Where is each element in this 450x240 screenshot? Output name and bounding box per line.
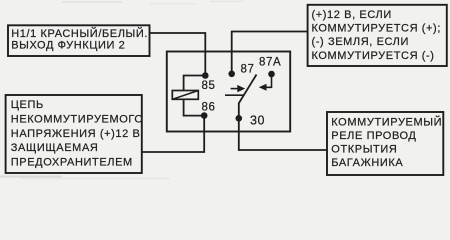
wire from pin 30 to lower right box bbox=[239, 120, 327, 150]
relay coil bbox=[172, 91, 198, 100]
pin 85 terminal dot bbox=[202, 72, 209, 79]
label box: trunk release relay wire bbox=[327, 112, 443, 175]
normally-closed arrow from 87A to blade bbox=[259, 75, 272, 91]
svg-text:30: 30 bbox=[250, 114, 265, 128]
pin 86 terminal dot bbox=[201, 112, 208, 119]
pin 87 terminal dot bbox=[228, 71, 235, 78]
svg-text:87A: 87A bbox=[259, 57, 281, 69]
svg-text:ВЫХОД ФУНКЦИИ 2: ВЫХОД ФУНКЦИИ 2 bbox=[11, 40, 125, 52]
svg-text:Н1/1 КРАСНЫЙ/БЕЛЫЙ.: Н1/1 КРАСНЫЙ/БЕЛЫЙ. bbox=[11, 27, 148, 40]
svg-text:БАГАЖНИКА: БАГАЖНИКА bbox=[331, 157, 403, 169]
pin 87A terminal dot bbox=[268, 71, 275, 78]
actuation arrow pointing right bbox=[231, 85, 246, 92]
actuator link line to blade bbox=[225, 94, 244, 96]
svg-text:86: 86 bbox=[202, 102, 216, 114]
label box: switched polarity note bbox=[308, 5, 447, 66]
svg-text:ОТКРЫТИЯ: ОТКРЫТИЯ bbox=[331, 144, 397, 156]
svg-text:87: 87 bbox=[241, 64, 255, 76]
wire from lower left box to pin 86 bbox=[142, 117, 204, 152]
scan speckles top bbox=[62, 1, 122, 3]
wire pin 85 to coil top bbox=[184, 76, 206, 92]
svg-text:85: 85 bbox=[202, 80, 216, 92]
pin 30 terminal dot bbox=[236, 115, 243, 122]
svg-text:ПРЕДОХРАНИТЕЛЕМ: ПРЕДОХРАНИТЕЛЕМ bbox=[11, 157, 133, 169]
svg-text:ЦЕПЬ: ЦЕПЬ bbox=[11, 99, 44, 111]
wire from pin 87 to upper right box bbox=[232, 32, 308, 73]
wire from H1/1 box to pin 85 bbox=[150, 33, 206, 73]
scan smudge bottom left bbox=[0, 175, 62, 177]
svg-text:(+)12 В, ЕСЛИ: (+)12 В, ЕСЛИ bbox=[312, 9, 392, 21]
svg-text:КОММУТИРУЕМЫЙ: КОММУТИРУЕМЫЙ bbox=[331, 116, 442, 129]
wire coil bottom to pin 86 bbox=[184, 99, 205, 116]
switch blade from pin 30 bbox=[239, 75, 257, 119]
svg-text:КОММУТИРУЕТСЯ (+);: КОММУТИРУЕТСЯ (+); bbox=[312, 23, 441, 35]
label box: H1/1 output wire bbox=[8, 25, 150, 56]
svg-text:ЗАЩИЩАЕМАЯ: ЗАЩИЩАЕМАЯ bbox=[11, 142, 99, 154]
svg-text:КОММУТИРУЕТСЯ (-): КОММУТИРУЕТСЯ (-) bbox=[312, 50, 435, 62]
svg-text:(-) ЗЕМЛЯ, ЕСЛИ: (-) ЗЕМЛЯ, ЕСЛИ bbox=[312, 36, 410, 48]
svg-text:НЕКОММУТИРУЕМОГО: НЕКОММУТИРУЕМОГО bbox=[11, 113, 144, 125]
label box: unswitched +12V circuit bbox=[6, 95, 144, 173]
relay K1 outline bbox=[167, 52, 290, 132]
svg-text:НАПРЯЖЕНИЯ (+)12 В,: НАПРЯЖЕНИЯ (+)12 В, bbox=[11, 128, 144, 140]
svg-text:РЕЛЕ ПРОВОД: РЕЛЕ ПРОВОД bbox=[331, 130, 416, 142]
